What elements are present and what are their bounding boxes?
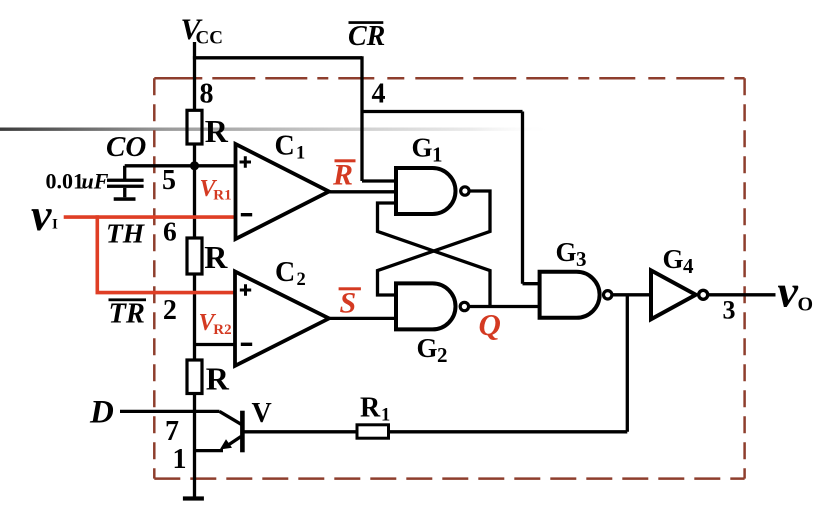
wire capacitor lead [123,166,126,180]
svg-text:G: G [412,132,433,162]
scan artifact gray line [0,128,555,131]
svg-text:3: 3 [576,247,587,271]
wire Vcc top rail [193,56,362,59]
wire G1 output cross-couple to G2 input [378,191,491,295]
label R bar red [332,159,356,192]
transistor V bar [240,411,245,453]
wire CR vertical drop [360,56,363,181]
wire stub to G3 top input [523,282,541,285]
wire divider bottom to ground [193,394,196,497]
svg-text:1: 1 [432,143,443,167]
svg-text:R: R [332,159,353,192]
nand gate G3 [540,272,600,318]
G3 output bubble [604,291,612,299]
resistor R bottom [187,360,202,394]
svg-text:5: 5 [162,165,176,196]
node junction dot [190,161,199,170]
nand gate G2 [396,283,456,329]
label C1 [275,130,306,163]
resistor R middle [187,238,202,274]
wire G4 output to vo [708,293,776,296]
svg-text:TH: TH [106,217,146,248]
op-amp comparator C1 [236,144,330,239]
wire divider upper-middle segment [193,144,196,238]
dashed IC boundary left edge [153,78,156,478]
red wire branch vertical [96,215,100,292]
svg-text:Q: Q [479,307,501,342]
svg-text:2: 2 [297,270,306,290]
label vI [31,189,58,240]
svg-text:TR: TR [109,298,145,329]
svg-text:uF: uF [82,169,109,194]
transistor V emitter arrowhead [220,439,232,449]
label 0.01uF [46,169,109,194]
svg-text:R2: R2 [213,322,231,338]
svg-text:R: R [360,392,381,423]
wire base to R1 [245,430,358,433]
wire D input [120,410,220,413]
svg-text:V: V [252,398,272,429]
wire C2 output to G2 [329,317,396,320]
op-amp comparator C2 [235,272,329,366]
wire Q output to G3 [469,305,540,308]
svg-text:7: 7 [165,416,179,447]
svg-text:1: 1 [381,406,390,426]
red wire vI to C1 minus input [64,215,236,219]
C1 plus sign [240,156,252,168]
svg-text:4: 4 [372,79,386,110]
svg-text:v: v [31,189,52,240]
svg-text:C: C [275,257,295,288]
resistor R1 horizontal [357,425,389,438]
svg-text:CO: CO [106,131,146,163]
dashed IC boundary right edge [743,78,746,478]
svg-text:6: 6 [163,216,177,247]
label CR with overline [348,21,385,52]
dashed IC boundary bottom edge [154,477,744,480]
svg-text:R1: R1 [213,187,231,203]
label Vcc [181,13,223,49]
svg-text:C: C [275,130,295,161]
label R1 [360,392,390,425]
wire G2 output cross-couple to G1 input [378,203,491,307]
svg-text:D: D [89,395,114,431]
svg-text:CR: CR [348,21,385,52]
svg-text:G: G [556,237,577,267]
svg-text:R: R [205,113,229,149]
svg-text:S: S [340,287,357,320]
label vO [778,266,814,317]
wire node to C1 plus input [125,164,236,167]
transistor V emitter [226,437,241,447]
label S bar red [339,287,361,320]
svg-text:O: O [798,294,814,316]
label G1 [412,132,443,166]
label VR2 red [199,310,232,338]
svg-text:1: 1 [173,444,187,475]
label VR1 red [200,176,232,203]
svg-text:1: 1 [296,143,305,163]
wire C1 output to G1 [329,190,396,193]
wire pin4 branch horizontal [362,110,523,113]
svg-text:8: 8 [200,79,214,110]
svg-text:R: R [206,361,230,397]
nand gate G1 [396,168,456,214]
svg-text:v: v [778,266,799,317]
wire emitter horizontal [195,449,224,452]
label C2 [275,257,306,290]
G1 output bubble [461,187,469,195]
label G4 [663,244,695,278]
G4 output bubble [699,290,708,299]
label G2 [417,333,448,367]
svg-text:2: 2 [437,343,448,367]
svg-text:2: 2 [163,295,177,326]
wire Vcc lead [193,42,196,111]
wire divider lower-middle segment [193,274,196,360]
C2 plus sign [240,284,251,296]
label TR with overline [109,298,147,329]
svg-text:3: 3 [723,296,736,325]
ground symbol bottom [183,496,204,500]
wire feedback vertical [626,295,629,432]
svg-text:G: G [417,333,438,363]
svg-text:CC: CC [196,28,223,49]
C1 minus sign [241,213,252,216]
svg-text:I: I [52,217,58,233]
svg-text:4: 4 [683,254,694,278]
wire CR stub to G1 input [362,179,396,182]
svg-text:R: R [204,239,228,275]
capacitor C 0.01uF [107,179,144,201]
label G3 [556,237,587,271]
inverter G4 [651,270,696,319]
wire G3 output to G4 [612,293,651,296]
resistor R top [187,110,202,144]
wire C2 minus input [195,343,236,346]
wire collector diagonal [220,411,243,424]
wire pin4 branch vertical to G3 [521,112,524,284]
red wire to C2 plus input [96,291,236,295]
svg-text:G: G [663,244,684,274]
C2 minus sign [241,343,252,346]
wire R1 to feedback corner [389,430,628,433]
G2 output bubble [460,302,468,310]
dashed IC boundary top edge [154,77,744,80]
